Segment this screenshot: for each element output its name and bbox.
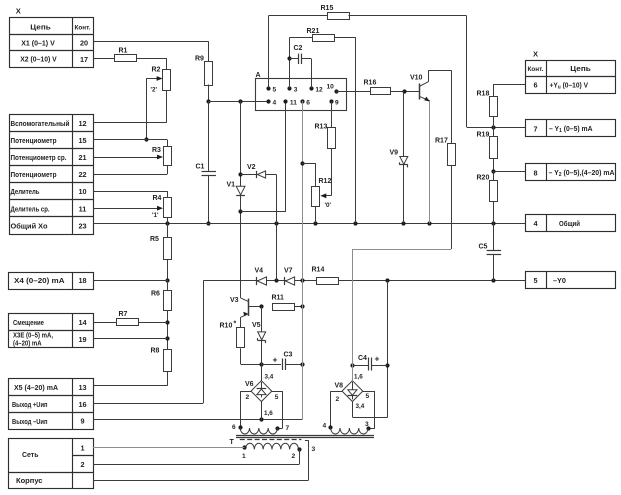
svg-text:Потенциометр ср.: Потенциометр ср.: [11, 153, 67, 162]
svg-text:R1: R1: [119, 48, 128, 55]
svg-text:X2 (0–10) V: X2 (0–10) V: [20, 55, 57, 64]
svg-text:V7: V7: [284, 268, 293, 275]
svg-text:14: 14: [78, 318, 87, 327]
svg-text:R14: R14: [312, 267, 325, 274]
svg-text:21: 21: [78, 153, 86, 162]
svg-text:6: 6: [533, 80, 537, 89]
svg-text:5: 5: [273, 87, 277, 94]
svg-text:Потенциометр: Потенциометр: [11, 170, 57, 179]
svg-text:R4: R4: [153, 195, 162, 202]
svg-text:16: 16: [78, 400, 86, 409]
svg-text:Вспомогательный: Вспомогательный: [11, 119, 70, 128]
svg-text:X: X: [533, 50, 538, 59]
svg-text:2: 2: [292, 453, 296, 460]
svg-text:V8: V8: [335, 382, 344, 389]
svg-text:Делитель: Делитель: [11, 187, 40, 196]
svg-text:R5: R5: [150, 236, 159, 243]
svg-text:X1 (0–1) V: X1 (0–1) V: [21, 38, 55, 47]
svg-text:22: 22: [78, 170, 86, 179]
svg-text:1,6: 1,6: [264, 410, 273, 417]
svg-text:'1': '1': [152, 212, 159, 219]
svg-text:3: 3: [365, 421, 369, 428]
svg-text:T: T: [230, 439, 235, 446]
svg-text:1: 1: [242, 453, 246, 460]
svg-text:R12: R12: [319, 178, 332, 185]
svg-text:V6: V6: [245, 381, 254, 388]
svg-text:3,4: 3,4: [356, 403, 365, 410]
svg-text:+: +: [375, 354, 380, 364]
svg-text:4: 4: [273, 100, 277, 107]
svg-text:17: 17: [80, 55, 88, 64]
svg-text:R19: R19: [477, 131, 490, 138]
svg-text:V4: V4: [255, 268, 264, 275]
svg-text:Общий Хо: Общий Хо: [11, 221, 48, 230]
svg-text:2: 2: [80, 460, 84, 469]
svg-text:– Y2 (0–5),(4–20) mA: – Y2 (0–5),(4–20) mA: [549, 168, 616, 178]
svg-text:V2: V2: [247, 164, 256, 171]
svg-text:Смещение: Смещение: [13, 318, 44, 327]
svg-text:C2: C2: [294, 45, 303, 52]
svg-text:C1: C1: [196, 164, 205, 171]
svg-text:R7: R7: [119, 311, 128, 318]
svg-text:R13: R13: [315, 124, 328, 131]
svg-text:12: 12: [78, 119, 86, 128]
svg-text:R17: R17: [435, 138, 448, 145]
svg-text:V5: V5: [252, 322, 261, 329]
svg-text:5: 5: [366, 393, 370, 400]
svg-text:23: 23: [78, 221, 86, 230]
svg-text:+: +: [273, 355, 278, 365]
svg-text:–Y0: –Y0: [553, 276, 566, 285]
svg-text:'2': '2': [151, 87, 158, 94]
svg-text:9: 9: [80, 417, 84, 426]
svg-text:Потенциометр: Потенциометр: [11, 136, 57, 145]
svg-text:5: 5: [275, 394, 279, 401]
svg-text:10: 10: [78, 187, 86, 196]
svg-text:C3: C3: [284, 352, 293, 359]
svg-text:C4: C4: [358, 355, 367, 362]
svg-text:13: 13: [78, 383, 86, 392]
svg-text:+Yu (0–10) V: +Yu (0–10) V: [550, 80, 589, 90]
svg-text:R8: R8: [151, 348, 160, 355]
svg-text:Выход +Uип: Выход +Uип: [12, 400, 48, 409]
svg-text:8: 8: [533, 168, 537, 177]
svg-text:(4–20) mA: (4–20) mA: [13, 338, 42, 347]
svg-text:'0': '0': [325, 202, 332, 209]
svg-text:12: 12: [315, 87, 323, 94]
svg-text:18: 18: [78, 276, 86, 285]
svg-text:R10: R10: [220, 323, 233, 330]
svg-text:5: 5: [533, 276, 537, 285]
svg-text:Цепь: Цепь: [30, 23, 51, 32]
svg-text:A: A: [256, 72, 261, 79]
svg-text:Конт.: Конт.: [528, 66, 544, 73]
svg-text:9: 9: [335, 100, 339, 107]
svg-text:1,6: 1,6: [354, 373, 363, 380]
svg-text:10: 10: [327, 84, 335, 91]
svg-text:Корпус: Корпус: [16, 476, 43, 485]
svg-text:C5: C5: [479, 244, 488, 251]
svg-text:2: 2: [246, 394, 250, 401]
svg-text:Делитель ср.: Делитель ср.: [11, 204, 50, 213]
svg-text:Цепь: Цепь: [570, 64, 591, 73]
svg-text:Выход –Uип: Выход –Uип: [12, 417, 48, 426]
svg-text:3: 3: [312, 446, 316, 453]
svg-text:*: *: [234, 321, 237, 328]
svg-text:R21: R21: [307, 28, 320, 35]
svg-text:7: 7: [286, 425, 290, 432]
svg-text:R11: R11: [272, 295, 285, 302]
svg-text:V1: V1: [227, 182, 236, 189]
svg-text:R15: R15: [321, 5, 334, 12]
svg-text:R9: R9: [195, 56, 204, 63]
svg-text:X4 (0–20) mA: X4 (0–20) mA: [14, 276, 65, 285]
svg-text:11: 11: [290, 100, 297, 107]
svg-text:3: 3: [294, 87, 298, 94]
svg-text:X5 (4–20) mA: X5 (4–20) mA: [14, 383, 59, 392]
svg-text:6: 6: [232, 424, 236, 431]
svg-text:V3: V3: [230, 297, 239, 304]
svg-text:R16: R16: [364, 80, 377, 87]
svg-text:R18: R18: [477, 91, 490, 98]
svg-text:V10: V10: [410, 75, 423, 82]
svg-text:2: 2: [336, 396, 340, 403]
svg-text:7: 7: [533, 125, 537, 134]
svg-text:X: X: [16, 7, 21, 16]
svg-text:Общий: Общий: [559, 219, 580, 228]
svg-text:19: 19: [78, 335, 86, 344]
svg-text:R20: R20: [477, 175, 490, 182]
svg-text:R2: R2: [152, 67, 161, 74]
svg-text:R3: R3: [152, 147, 161, 154]
svg-text:15: 15: [78, 136, 86, 145]
svg-text:Сеть: Сеть: [22, 450, 39, 459]
svg-text:R6: R6: [151, 291, 160, 298]
svg-text:3,4: 3,4: [265, 374, 274, 381]
svg-text:11: 11: [79, 204, 87, 213]
svg-text:– Y1 (0–5) mA: – Y1 (0–5) mA: [549, 124, 593, 134]
svg-text:6: 6: [306, 100, 310, 107]
svg-text:V9: V9: [390, 150, 399, 157]
svg-text:4: 4: [323, 423, 327, 430]
svg-text:Конт.: Конт.: [75, 25, 91, 32]
svg-text:1: 1: [80, 444, 84, 453]
svg-text:20: 20: [80, 38, 88, 47]
